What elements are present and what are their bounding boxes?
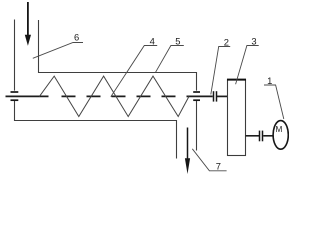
gearbox top thick edge [227, 79, 246, 81]
right bearing top block [193, 91, 200, 93]
screw flights zigzag [39, 76, 189, 116]
outlet chute left wall [176, 120, 178, 159]
shaft stub coupling to gearbox [217, 95, 228, 97]
screw shaft right segment to coupling [188, 95, 213, 97]
motor M body [273, 121, 288, 150]
svg-text:2: 2 [224, 36, 229, 47]
inlet chute left wall / trough left wall [14, 20, 16, 91]
leader line for label 5 (points to trough top) [156, 46, 184, 73]
svg-text:6: 6 [74, 32, 79, 43]
inlet feed arrow (into chute) [25, 2, 31, 46]
leader line for label 3 (points to gearbox) [236, 46, 259, 85]
svg-text:3: 3 [251, 36, 256, 47]
svg-text:5: 5 [175, 36, 180, 47]
screw shaft left solid segment [6, 95, 49, 97]
leader line for label 7 [192, 149, 226, 171]
leader line for label 6 [33, 43, 83, 59]
gearbox output shaft [246, 135, 260, 137]
leader line for label 2 (points to coupling) [211, 47, 230, 95]
coupling C1 left bar [259, 131, 261, 142]
leader line for label 4 (points to screw shaft) [111, 46, 157, 97]
left bearing top block [11, 91, 19, 93]
leader line for label 1 (points to motor) [264, 85, 284, 119]
trough bottom line [14, 120, 177, 122]
coupling C1 right bar [262, 131, 264, 142]
svg-text:1: 1 [267, 75, 272, 86]
svg-text:4: 4 [150, 36, 155, 47]
inlet chute right wall [38, 20, 40, 73]
motor shaft segment [263, 135, 273, 137]
outlet discharge arrow [185, 128, 190, 175]
left bearing bottom block [11, 99, 19, 101]
svg-text:7: 7 [216, 161, 221, 172]
trough right wall upper segment [196, 72, 198, 91]
trough right wall / outlet right wall [196, 101, 198, 151]
trough top line [39, 72, 198, 74]
gearbox body [228, 80, 246, 156]
screw shaft dashed axis [62, 95, 188, 97]
svg-text:M: M [275, 125, 282, 134]
coupling C2 left bar [213, 91, 215, 101]
trough left wall lower segment [14, 101, 16, 121]
right bearing bottom block [193, 99, 200, 101]
coupling C2 right bar [216, 91, 218, 101]
